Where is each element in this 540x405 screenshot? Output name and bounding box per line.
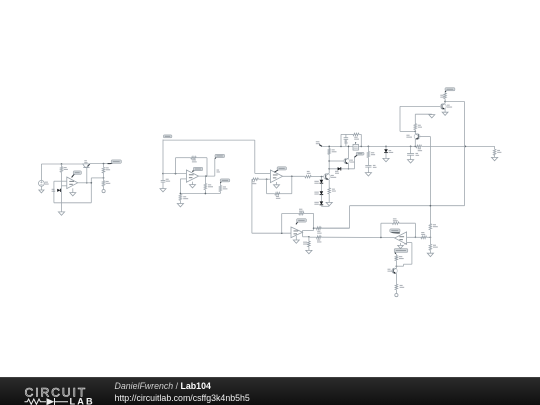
junction R8j xyxy=(414,146,416,148)
wire up to flag F5 xyxy=(354,157,356,169)
resistor R7 xyxy=(219,183,221,185)
wire from buffer to divider xyxy=(90,163,112,165)
label R28 xyxy=(400,285,403,286)
wire R18 to Q7 xyxy=(414,130,416,134)
wire arm down xyxy=(411,243,413,265)
wire arm down 2 xyxy=(403,264,405,266)
label D5 xyxy=(335,171,338,172)
ground under R26 xyxy=(429,250,431,253)
snubber loop left leg xyxy=(340,134,342,146)
junction E5 xyxy=(348,168,350,170)
label R3 xyxy=(106,181,109,182)
wire U5 out resistor row xyxy=(407,236,421,238)
transistor Q5 xyxy=(344,158,350,164)
label R26 xyxy=(433,245,436,246)
wire output up branch xyxy=(303,229,314,231)
ground under C3 xyxy=(367,170,369,173)
node flag F3 xyxy=(215,157,217,159)
label R18 xyxy=(418,125,421,126)
label R4 xyxy=(192,159,196,160)
wire arm left xyxy=(404,263,412,265)
transistor Q8 xyxy=(392,268,397,273)
voltage source V1 xyxy=(40,164,42,180)
junction I4 xyxy=(380,237,382,239)
label R12 xyxy=(332,149,335,150)
wire right vertical A xyxy=(90,178,92,203)
junction E4 xyxy=(328,168,330,170)
label D4 xyxy=(314,202,318,203)
node flag F2 xyxy=(163,135,172,138)
label C4 xyxy=(416,153,419,154)
flag U2 top xyxy=(192,170,195,171)
resistor R2 xyxy=(103,164,105,168)
wire flag F2 down xyxy=(162,140,164,174)
label R13 xyxy=(418,148,421,149)
wire bottom rail B xyxy=(180,193,220,195)
label D1 xyxy=(52,189,55,190)
junction R5j xyxy=(368,146,370,148)
label C3 xyxy=(373,165,376,166)
wire upper out wire block I xyxy=(314,227,350,229)
label R21 xyxy=(317,240,320,241)
resistor R25 upper right xyxy=(429,224,432,230)
junction C1j xyxy=(266,178,268,180)
op-amp U4 xyxy=(291,227,303,238)
junction X1j xyxy=(430,205,432,207)
label Q8 xyxy=(388,269,391,270)
wire U5 lower input arm xyxy=(407,242,412,244)
label C1 xyxy=(166,179,169,180)
resistor R28 xyxy=(395,284,398,289)
wire R17 to Q6 collector xyxy=(444,99,446,103)
label gnd J xyxy=(404,243,407,244)
wire Q8 emitter down xyxy=(395,274,397,285)
transistor Q6 xyxy=(440,104,446,110)
wire Q5 emitter xyxy=(348,164,350,169)
label net B xyxy=(217,170,220,171)
junction R3j xyxy=(348,146,350,148)
wire Q4 collector up xyxy=(328,146,330,173)
wire main rail left xyxy=(322,145,353,147)
op-amp U3 xyxy=(270,170,282,183)
resistor R5 divider xyxy=(204,176,206,183)
wire to Q4 base xyxy=(311,176,324,178)
label R19 xyxy=(299,209,302,210)
resistor R22 to ground I xyxy=(308,237,310,241)
junction A2 xyxy=(103,163,105,165)
junction A5 xyxy=(103,177,105,179)
wire U2 output xyxy=(199,175,215,177)
diode D6 to ground xyxy=(385,146,387,149)
diode chain D4 xyxy=(320,195,322,202)
junction R4j xyxy=(360,146,362,148)
capacitor C3 column xyxy=(365,165,371,167)
wire arm left 2 xyxy=(396,265,403,267)
wire U1 plus input xyxy=(62,185,67,187)
resistor R20 upper out xyxy=(316,227,321,230)
wire divider tap xyxy=(91,177,103,179)
fuse/pot box on rail xyxy=(355,142,357,144)
resistor R18 xyxy=(414,124,417,130)
junction R6j xyxy=(385,146,387,148)
ground under U4 xyxy=(295,236,297,240)
transistor Q7 (mirrored) xyxy=(414,134,420,140)
junction B2 xyxy=(175,173,177,175)
wire feedback left leg stage3 xyxy=(266,179,268,194)
wire feedback left vertical xyxy=(53,181,55,203)
label R27 xyxy=(399,256,402,257)
wire feedback right leg stage3 xyxy=(291,176,293,193)
wire collector node right xyxy=(445,101,464,103)
label V1 xyxy=(45,182,48,183)
junction A4 xyxy=(90,182,92,184)
op-amp U2 xyxy=(186,170,198,182)
junction I2 xyxy=(313,227,315,229)
resistor R16 rail end xyxy=(494,146,496,149)
label R9 xyxy=(276,196,279,197)
wire base long drop xyxy=(429,137,431,224)
ground under U1 xyxy=(72,188,74,192)
junction A3 xyxy=(86,182,88,184)
wire emitter node xyxy=(329,168,354,170)
port terminal J xyxy=(395,290,397,294)
wire U1 output xyxy=(78,182,92,184)
wire plus input down to rail xyxy=(179,179,181,195)
wire to block I input xyxy=(252,232,291,234)
ground under D6 xyxy=(385,153,387,159)
label R5 xyxy=(208,184,211,185)
ground bottom of block A xyxy=(58,212,64,215)
snubber top wire xyxy=(341,133,353,135)
feedback top wire J xyxy=(381,222,393,224)
resistor R12 top xyxy=(328,146,330,148)
flag U3 top xyxy=(274,169,278,172)
wire output lower branch xyxy=(303,236,309,238)
resistor R17 xyxy=(444,91,446,94)
label C2 xyxy=(344,141,347,142)
wire feedback left leg J xyxy=(380,223,382,237)
junction C2j xyxy=(291,175,293,177)
label R2 xyxy=(106,167,109,168)
label R17 xyxy=(440,95,443,96)
label Q5 xyxy=(350,160,353,161)
junction T1 xyxy=(444,101,446,103)
label R11 xyxy=(332,189,335,190)
port terminal block A xyxy=(103,186,105,189)
ground under R6 xyxy=(179,200,181,203)
wire Q6 emitter to ground xyxy=(444,109,446,112)
node flag F1 xyxy=(108,162,113,165)
junction B4 xyxy=(205,193,207,195)
wire main rail right xyxy=(422,145,495,147)
wire feedback left leg I xyxy=(281,214,283,234)
label Q4 xyxy=(331,175,334,176)
wire Q7 base right xyxy=(418,136,430,138)
op-amp U5 (faces left) xyxy=(395,232,407,244)
label R24 xyxy=(421,232,424,233)
junction R1j xyxy=(328,146,330,148)
junction E1 xyxy=(321,176,323,178)
wire mid horizontal bus xyxy=(350,205,465,207)
label R22 xyxy=(303,242,307,243)
snubber right leg xyxy=(360,134,362,146)
ground block E xyxy=(326,202,332,205)
wire Q5 collector xyxy=(348,146,350,158)
wire long top to stage3 xyxy=(163,139,255,141)
label R8 xyxy=(252,181,255,182)
resistor R21 lower out xyxy=(309,236,317,238)
wire stage3 minus drop xyxy=(254,140,256,173)
label R15 xyxy=(371,152,374,153)
feedback resistor R23 xyxy=(392,222,399,225)
junction E3 xyxy=(328,160,330,162)
label R25 xyxy=(433,224,436,225)
node flag F5 xyxy=(355,155,358,158)
wire base drop left xyxy=(399,106,401,131)
ground under U5 xyxy=(400,243,402,245)
junction T2 xyxy=(414,131,416,133)
label R10 xyxy=(307,171,310,172)
wire U2 minus input xyxy=(163,173,186,175)
wire Q6 base xyxy=(400,105,440,107)
transistor Q4 xyxy=(324,173,330,179)
flag U5 top xyxy=(391,232,400,233)
wire U1 minus input xyxy=(54,180,67,182)
diode chain D2 xyxy=(320,177,322,180)
capacitor C2 snubber xyxy=(344,137,349,139)
wire lower long to block J xyxy=(321,236,395,238)
ground rail end xyxy=(494,155,496,157)
label R23 xyxy=(393,218,397,219)
ground under C4 xyxy=(408,160,414,163)
label R14 xyxy=(354,137,357,138)
wire diode chain bottom xyxy=(320,205,322,207)
junction J2 xyxy=(430,236,432,238)
label D6 xyxy=(389,150,392,151)
junction R2j xyxy=(340,146,342,148)
resistor R27 xyxy=(395,254,397,256)
flag U4 top xyxy=(296,222,298,225)
wire feedback up leg xyxy=(175,158,177,174)
label Q6 xyxy=(447,105,450,106)
wire to ground E xyxy=(328,194,330,203)
wire U4 output bus xyxy=(302,230,304,236)
wire U3 minus input xyxy=(255,172,271,174)
resistor R1 xyxy=(61,164,63,167)
svg-text:LAB: LAB xyxy=(70,396,95,405)
op-amp U1 xyxy=(67,177,78,189)
wire Q4 emitter down xyxy=(328,180,330,188)
resistor R26 lower right xyxy=(429,244,432,250)
wire top rail block A xyxy=(41,163,83,165)
junction B3 xyxy=(205,175,207,177)
node flag F7 top xyxy=(445,90,447,92)
junction B5 xyxy=(180,193,182,195)
wire feedback right leg J xyxy=(414,223,416,237)
label R7 xyxy=(223,186,226,187)
wire plus long vertical down xyxy=(251,179,253,233)
ground under C1 xyxy=(160,189,166,192)
label X1 xyxy=(84,160,87,161)
wire main rail mid xyxy=(358,145,416,147)
wire to QB collector node xyxy=(400,130,415,132)
feedback resistor R4 xyxy=(176,157,191,159)
resistor R10 series xyxy=(305,175,311,178)
node flag F6 rail left xyxy=(316,141,320,142)
ground under U2 xyxy=(192,182,194,185)
node flag F4 xyxy=(220,181,221,183)
wire bus drop to block I xyxy=(349,206,351,229)
ground under U3 xyxy=(276,182,278,185)
label R6 xyxy=(183,196,186,197)
ground arm top xyxy=(429,115,435,118)
wire U3 output xyxy=(283,175,305,177)
capacitor C1 xyxy=(161,180,166,182)
wire long vertical to ground xyxy=(61,172,63,212)
buffer element X1 (funnel) xyxy=(83,164,90,167)
feedback top wire I xyxy=(282,213,299,215)
junction J3 xyxy=(396,265,398,267)
wire output up to flag xyxy=(214,159,216,176)
wire U2 plus input xyxy=(180,178,186,180)
wire Q7 emitter to rail xyxy=(414,139,416,146)
node flag F8 xyxy=(394,252,397,254)
wire R18 top to ground arm xyxy=(414,114,416,123)
feedback resistor R19 xyxy=(299,212,304,215)
diode D5 xyxy=(338,167,341,170)
wire feedback bottom xyxy=(54,202,91,204)
label Q7 xyxy=(406,135,409,136)
label D3 xyxy=(314,192,318,193)
junction I1 xyxy=(281,232,283,234)
flag U1 top xyxy=(72,174,75,178)
label R16 xyxy=(497,150,500,151)
wire right long vertical xyxy=(464,102,466,206)
junction B1 xyxy=(162,173,164,175)
label R1 xyxy=(64,167,67,168)
resistor R14 snubber xyxy=(353,133,359,136)
label R20 xyxy=(317,231,320,232)
capacitor C4 rail xyxy=(407,153,414,155)
resistor R6 to ground xyxy=(179,194,182,200)
wire Q5 base xyxy=(329,160,344,162)
feedback resistor R9 xyxy=(280,193,292,195)
resistor R24 xyxy=(421,236,427,239)
ground under R22 xyxy=(308,247,310,251)
diode chain D3 xyxy=(320,183,322,191)
resistor R8 plus input xyxy=(252,178,259,181)
wire feedback right leg I xyxy=(313,214,315,231)
resistor R3 xyxy=(103,178,105,181)
label D2 xyxy=(314,181,318,182)
wire feedback down leg xyxy=(206,158,208,176)
resistor R13 on rail xyxy=(416,145,422,148)
junction R7j xyxy=(410,146,412,148)
junction J1 xyxy=(415,236,417,238)
resistor R15 column xyxy=(367,146,369,151)
ground under V1 xyxy=(40,186,42,190)
wire X1 stem to output node xyxy=(86,168,88,183)
resistor R11 emitter xyxy=(328,188,331,194)
junction R9j xyxy=(465,146,467,148)
diode D1 xyxy=(57,189,60,192)
junction I3 xyxy=(308,236,310,238)
junction A1 xyxy=(61,163,63,165)
